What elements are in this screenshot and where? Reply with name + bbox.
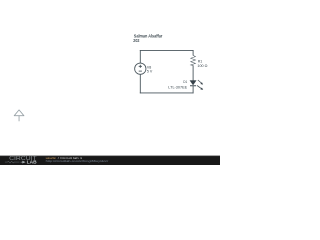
LED light arrow 1 — [198, 80, 201, 83]
voltage source plus sign — [139, 65, 142, 68]
wire led-to-bottom — [192, 86, 194, 93]
svg-text:202: 202 — [133, 38, 140, 43]
wire right top stub — [192, 50, 194, 56]
wire top rail — [140, 49, 194, 51]
svg-text:100 Ω: 100 Ω — [197, 64, 207, 68]
wire resistor-to-led — [192, 65, 194, 80]
wire left top stub — [139, 50, 141, 63]
LED light arrow 2 — [197, 86, 201, 89]
svg-text:R1: R1 — [198, 59, 203, 63]
voltage source minus sign — [139, 70, 142, 72]
footer bar top highlight — [0, 155, 220, 158]
antenna symbol bottom-left — [14, 110, 24, 116]
LED D1 cathode bar — [190, 85, 196, 87]
svg-text:LAB: LAB — [27, 160, 37, 165]
logo wire zigzag — [5, 161, 20, 163]
wire left bottom stub — [139, 74, 141, 93]
svg-text:http://circuitlab.com/c/hmgt66: http://circuitlab.com/c/hmgt66uy/dcc/ — [46, 159, 109, 163]
footer bar — [0, 156, 220, 165]
wire bottom rail — [140, 92, 194, 94]
LED D1 triangle — [190, 81, 196, 86]
resistor R1 zigzag — [191, 55, 196, 65]
logo arrow glyph — [21, 161, 25, 163]
svg-text:LTL-307EE: LTL-307EE — [168, 85, 188, 89]
svg-text:5 V: 5 V — [147, 70, 153, 74]
svg-text:D1: D1 — [183, 80, 187, 84]
voltage source V8 circle — [135, 63, 146, 74]
